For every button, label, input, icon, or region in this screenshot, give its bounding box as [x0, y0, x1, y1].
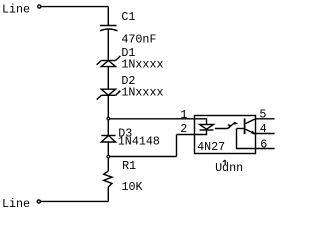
capacitor C1	[100, 26, 118, 31]
svg-text:C1: C1	[121, 10, 135, 24]
wire C1 to D1	[107, 29, 109, 61]
svg-text:6: 6	[260, 137, 267, 151]
wire D1 to D2	[107, 67, 109, 90]
svg-text:470nF: 470nF	[121, 33, 156, 47]
zener diode D2	[97, 89, 121, 99]
wire junction A to opto pin 1	[110, 118, 195, 120]
svg-text:4N27: 4N27	[197, 140, 225, 154]
node junction B (opto pin2 return)	[107, 155, 110, 158]
wire D3 to R1	[107, 142, 109, 171]
terminal top Line	[38, 5, 41, 8]
wire top horizontal	[41, 6, 108, 8]
LED inside opto	[195, 125, 214, 135]
svg-text:Line: Line	[2, 3, 30, 17]
resistor R1	[104, 171, 112, 187]
svg-text:1N4148: 1N4148	[118, 134, 160, 148]
svg-text:1: 1	[180, 108, 187, 122]
wire pin 4	[253, 133, 275, 135]
op-amp U1 optocoupler 4N27 box	[195, 116, 256, 154]
svg-text:Line: Line	[2, 197, 30, 211]
svg-text:2: 2	[180, 122, 187, 136]
wire junction B right	[110, 156, 177, 158]
svg-text:R1: R1	[122, 159, 136, 173]
wire R1 to bottom	[107, 187, 109, 202]
terminal bottom Line	[37, 200, 40, 203]
node junction A (to opto pin1)	[107, 117, 110, 120]
svg-text:nn: nn	[229, 161, 243, 175]
wire pin2 vertical	[176, 135, 178, 157]
svg-text:1Nxxxx: 1Nxxxx	[121, 58, 163, 72]
wire pin 5	[255, 118, 275, 120]
diode D3	[101, 136, 115, 143]
zener diode D1	[97, 56, 121, 67]
transistor Q inside opto	[237, 118, 256, 148]
wire pin 6	[256, 148, 275, 150]
wire D2 to D3	[107, 95, 109, 135]
wire pin1 inside opto	[195, 119, 207, 124]
svg-text:1Nxxxx: 1Nxxxx	[121, 85, 163, 99]
svg-text:10K: 10K	[122, 180, 143, 194]
light arrow	[215, 122, 238, 129]
wire pin2 horizontal to opto	[177, 134, 195, 136]
wire top vertical to C1	[107, 7, 109, 26]
label Udnn	[215, 160, 243, 175]
wire bottom horizontal	[41, 200, 109, 202]
